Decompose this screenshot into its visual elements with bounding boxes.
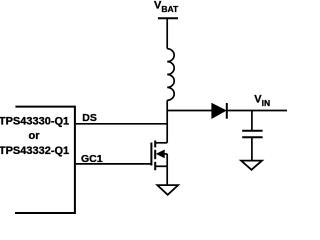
transistor Q1 (NMOS) (151, 141, 155, 171)
svg-text:DS: DS (82, 112, 97, 124)
svg-text:VBAT: VBAT (154, 0, 179, 14)
IC box U1 (TPS43330-Q1/TPS43332-Q1, open left side) (15, 107, 75, 213)
wire GC1 pin to gate (76, 163, 152, 165)
channel segments (154, 141, 156, 148)
ground (source) (157, 185, 178, 195)
wire capacitor to ground (251, 137, 253, 160)
body arrow (points into channel) (157, 150, 168, 166)
inductor L1 (167, 49, 174, 101)
svg-text:VIN: VIN (254, 94, 270, 109)
wire node to diode anode (167, 110, 212, 112)
diode D1 (212, 103, 227, 119)
wire VIN node to capacitor (251, 111, 253, 131)
wire VBAT bar to inductor (166, 18, 168, 48)
gate bar (150, 143, 152, 166)
wire inductor to MOSFET drain (166, 100, 168, 143)
value label TPS43330-Q1 / or / TPS43332-Q1 (0, 116, 69, 157)
wire diode cathode to VIN (227, 110, 287, 112)
source stub (155, 165, 167, 167)
ground (capacitor) (241, 161, 262, 170)
wire DS pin to drain node (76, 123, 168, 125)
supply bar VBAT (158, 17, 178, 19)
wire source to ground (166, 166, 168, 185)
drain stub (155, 142, 167, 144)
svg-text:or: or (29, 130, 41, 142)
capacitor C1 (242, 131, 262, 138)
svg-text:TPS43332-Q1: TPS43332-Q1 (0, 145, 69, 157)
svg-text:TPS43330-Q1: TPS43330-Q1 (0, 116, 69, 128)
